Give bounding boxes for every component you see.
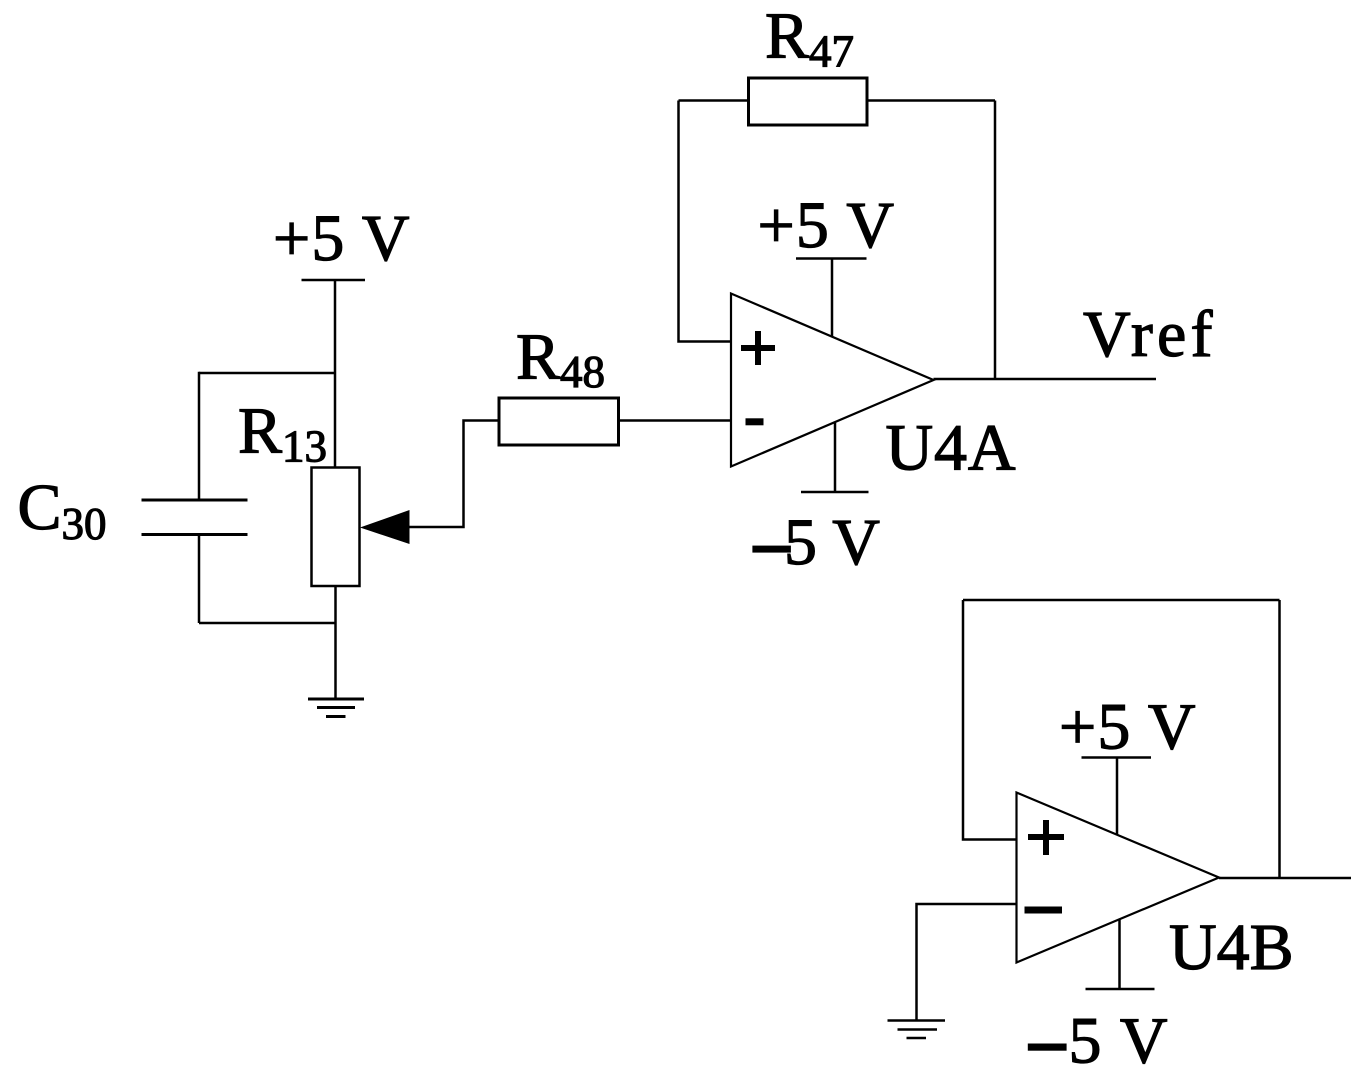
wire: U4B feedback left vertical to + input [963,600,1017,840]
wire: U4A bottom edge to -5V bar [834,423,837,492]
wire: U4B feedback right vertical to output [1278,600,1281,878]
op-amp U4B body [1017,793,1220,963]
svg-text:+5 V: +5 V [758,189,895,262]
resistor R48 body [499,398,619,445]
wire: wiper to R48 (stepped) [408,421,500,528]
op-amp U4A plus sign [741,331,775,365]
op-amp U4A body [731,294,934,467]
wire: C30 bottom lead [198,535,201,624]
wire: U4B feedback top horizontal [963,599,1280,602]
ground (right) [888,1021,946,1039]
svg-text:Vref: Vref [1083,298,1213,371]
power -5V label (U4B): minus dash [1028,1044,1067,1051]
ground (left) [308,699,364,717]
svg-text:+5 V: +5 V [1059,691,1196,764]
svg-text:5 V: 5 V [784,506,880,579]
power +5V bar (U4B) [1082,756,1152,759]
wire: U4A output [934,378,1157,381]
wire: feedback right vertical (U4A) [994,101,997,380]
wire: C30 top lead [198,372,201,500]
wire: R48 to U4A inverting input [619,419,732,422]
power -5V label (U4A): minus dash [752,546,791,553]
potentiometer R13 body [312,468,360,587]
wire: +5V stem to U4B top edge [1116,758,1119,836]
power +5V bar (U4A) [796,257,867,260]
power +5V bar (left) [302,279,366,282]
wire: feedback top horizontal (U4A) [679,99,996,102]
capacitor C30 bottom plate [142,533,248,536]
wire: top branch to C30 [199,372,336,375]
wire: +5V stem to U4A top edge [831,259,834,338]
svg-text:+5 V: +5 V [273,202,410,275]
op-amp U4A minus sign [746,418,764,425]
wire: U4B bottom edge to -5V bar [1118,920,1121,990]
wire: bottom branch to R13 bottom [199,622,336,625]
op-amp U4B minus sign [1025,907,1063,914]
capacitor C30 top plate [142,499,248,502]
svg-text:5 V: 5 V [1069,1005,1168,1078]
svg-text:U4B: U4B [1169,911,1294,984]
power -5V bar (U4B) [1086,988,1155,991]
wire: feedback left vertical down to U4A + input [679,101,732,342]
wire: U4B output [1219,877,1351,880]
wire: R13 bottom to ground [334,586,337,700]
op-amp U4B plus sign [1028,820,1064,855]
power -5V bar (U4A) [801,491,869,494]
wire: ground to U4B inverting input [917,904,1017,1021]
potentiometer R13 wiper arrow [360,510,410,544]
wire: +5V stem down to R13 top [334,280,337,468]
resistor R47 body [749,78,868,125]
svg-text:U4A: U4A [886,411,1016,484]
